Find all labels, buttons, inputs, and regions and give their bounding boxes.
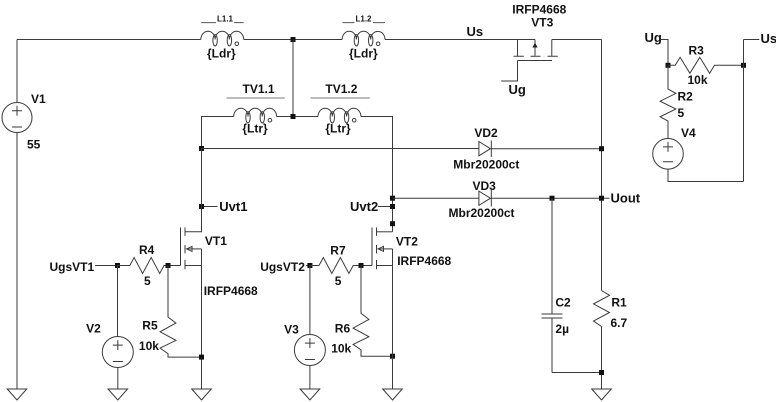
svg-text:V3: V3 <box>284 322 299 336</box>
svg-text:Ug: Ug <box>509 82 526 97</box>
svg-text:5: 5 <box>144 274 151 288</box>
wire V1 top to rail <box>16 40 18 103</box>
svg-text:VT3: VT3 <box>531 16 553 30</box>
node junction Uout <box>599 196 604 201</box>
capacitor C2 2u <box>542 198 572 372</box>
resistor R3 10k <box>668 44 744 88</box>
wire V4 bottom loop to Us rail <box>668 169 744 181</box>
svg-text:2µ: 2µ <box>555 322 569 336</box>
svg-text:L1.1: L1.1 <box>217 14 234 23</box>
svg-text:10k: 10k <box>139 339 159 353</box>
ground (under VT2) <box>383 389 403 400</box>
svg-text:L1.2: L1.2 <box>356 14 373 23</box>
svg-text:R4: R4 <box>139 243 155 257</box>
wire VT2 source down <box>392 249 394 389</box>
diode VD2 Mbr20200ct <box>453 126 519 172</box>
svg-text:VD2: VD2 <box>474 126 498 140</box>
ground (output) <box>592 389 612 400</box>
svg-text:V1: V1 <box>31 92 46 106</box>
transformer winding TV1.1 {Ltr} <box>227 82 285 136</box>
svg-text:Uvt1: Uvt1 <box>219 199 247 214</box>
svg-text:10k: 10k <box>688 73 708 87</box>
svg-text:VT2: VT2 <box>396 234 418 248</box>
diode VD3 Mbr20200ct <box>449 179 515 220</box>
wire right rail down <box>601 40 603 291</box>
voltage source V2 <box>86 266 133 368</box>
svg-text:Ug: Ug <box>645 30 662 45</box>
svg-text:Us: Us <box>761 31 776 46</box>
resistor R6 10k <box>331 266 392 357</box>
inductor L1.1 {Ldr} <box>201 14 244 60</box>
svg-text:IRFP4668: IRFP4668 <box>204 284 258 298</box>
node junction VD3 tap on VT2 drain line <box>390 196 395 201</box>
node UgsVT1 label and stub <box>50 260 118 274</box>
node junction V3/R7 <box>307 263 312 268</box>
wire TV1.1 to TV1.2 <box>277 116 318 118</box>
svg-text:R1: R1 <box>611 296 627 310</box>
voltage source V1 <box>2 92 46 152</box>
svg-text:C2: C2 <box>555 296 571 310</box>
wire top rail left <box>17 39 201 41</box>
wire L1.2 to VT3 <box>385 39 535 41</box>
svg-text:Us: Us <box>467 24 484 39</box>
wire VT3 source to right rail <box>552 39 602 41</box>
wire VD3 cathode to output <box>491 197 601 199</box>
node junction R4/R5 gate <box>166 263 171 268</box>
voltage source V4 <box>653 126 696 169</box>
wire VD2 cathode to right rail <box>491 148 601 150</box>
svg-text:{Ldr}: {Ldr} <box>207 47 236 61</box>
svg-text:{Ldr}: {Ldr} <box>349 47 378 61</box>
ground (under VT1) <box>192 389 212 400</box>
wire V1 bottom to ground <box>16 133 18 390</box>
svg-text:6.7: 6.7 <box>611 316 628 330</box>
node Us label (right circuit) <box>744 31 776 46</box>
node junction VD2 / right rail <box>599 146 604 151</box>
svg-text:VT1: VT1 <box>205 234 227 248</box>
resistor R1 6.7 <box>594 291 628 331</box>
svg-text:Uout: Uout <box>611 190 641 205</box>
inductor L1.2 {Ldr} <box>342 14 385 60</box>
svg-text:R2: R2 <box>678 90 694 104</box>
svg-text:VD3: VD3 <box>473 179 497 193</box>
svg-text:10k: 10k <box>331 342 351 356</box>
svg-text:TV1.2: TV1.2 <box>325 82 357 96</box>
svg-text:{Ltr}: {Ltr} <box>242 122 268 136</box>
node junction TV center <box>291 114 296 119</box>
resistor R4 5 <box>118 243 181 288</box>
wire VD2 anode rail <box>202 148 479 150</box>
node Uvt1 label <box>199 199 247 214</box>
node junction Ug/R3/R2 <box>666 63 671 68</box>
svg-text:55: 55 <box>27 138 41 152</box>
wire V2 to ground <box>117 368 119 390</box>
node junction R6 bottom / VT2 source <box>390 354 395 359</box>
ground (under V2) <box>108 389 128 400</box>
wire R1 bottom to ground <box>601 327 603 390</box>
wire VD3 anode rail <box>393 197 479 199</box>
svg-text:IRFP4668: IRFP4668 <box>512 3 566 17</box>
svg-text:R7: R7 <box>330 243 346 257</box>
ground (under V1) <box>7 389 27 400</box>
transistor VT2 IRFP4668 <box>372 228 452 270</box>
wire TV1.1 left lead <box>202 117 234 149</box>
wire VT1 source down <box>201 249 203 389</box>
svg-text:5: 5 <box>335 274 342 288</box>
svg-text:Uvt2: Uvt2 <box>350 199 378 214</box>
svg-text:R6: R6 <box>335 321 351 335</box>
svg-text:R5: R5 <box>142 318 158 332</box>
node junction output ground rail <box>599 370 604 375</box>
wire junction down to transformer <box>292 40 294 117</box>
svg-text:Mbr20200ct: Mbr20200ct <box>449 206 515 220</box>
wire C2 bottom to ground rail <box>552 372 602 374</box>
svg-text:UgsVT2: UgsVT2 <box>260 260 305 274</box>
resistor R5 10k <box>139 266 202 358</box>
svg-text:TV1.1: TV1.1 <box>243 82 275 96</box>
node UgsVT2 label and stub <box>260 260 310 274</box>
wire Us rail down <box>743 40 745 182</box>
resistor R7 5 <box>310 243 372 288</box>
node Uvt2 label <box>350 199 395 214</box>
wire TV1.2 right lead down <box>361 117 393 232</box>
transistor VT3 IRFP4668 <box>501 3 566 82</box>
node junction R7/R6 gate <box>359 263 364 268</box>
resistor R2 5 <box>660 65 693 138</box>
voltage source V3 <box>284 266 325 366</box>
wire between L1.1 and L1.2 <box>244 39 342 41</box>
svg-text:V2: V2 <box>86 322 101 336</box>
wire V3 to ground <box>309 366 311 390</box>
svg-text:V4: V4 <box>681 126 696 140</box>
svg-text:UgsVT1: UgsVT1 <box>50 260 95 274</box>
svg-text:{Ltr}: {Ltr} <box>325 122 351 136</box>
svg-text:5: 5 <box>678 106 685 120</box>
node junction C2 tap <box>550 196 555 201</box>
svg-text:R3: R3 <box>689 44 705 58</box>
transformer winding TV1.2 {Ltr} <box>311 82 370 136</box>
node junction R3 right / Us rail <box>741 63 746 68</box>
svg-text:Mbr20200ct: Mbr20200ct <box>453 158 519 172</box>
node junction V2/R4 <box>115 263 120 268</box>
node junction VT2 drain <box>390 221 395 226</box>
ground (under V3) <box>300 389 320 400</box>
node junction R5 bottom / VT1 source <box>199 355 204 360</box>
svg-text:IRFP4668: IRFP4668 <box>397 254 451 268</box>
node Ug label (right circuit) <box>645 30 669 65</box>
node junction L1.1/L1.2 <box>291 37 296 42</box>
node junction TV left / VD2 rail <box>199 146 204 151</box>
transistor VT1 IRFP4668 <box>181 149 259 299</box>
node Uout label <box>604 190 641 205</box>
